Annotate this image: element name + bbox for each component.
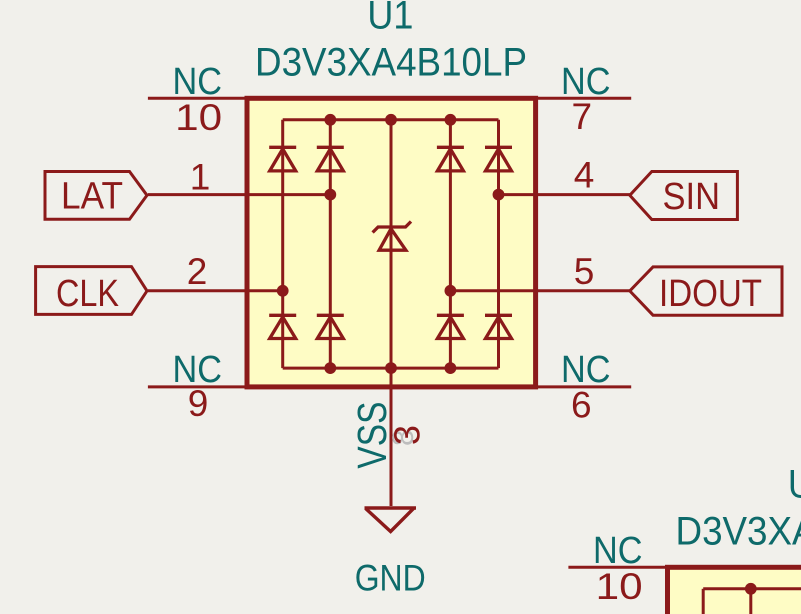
svg-text:U1: U1: [367, 0, 413, 37]
junction dot top rail col3: [445, 114, 457, 126]
svg-text:4: 4: [574, 155, 595, 196]
diode D3a (top col3): [437, 147, 464, 171]
junction dot bottom rail col3: [445, 362, 457, 374]
pin 9 (NC): [148, 385, 247, 388]
svg-text:CLK: CLK: [56, 273, 119, 315]
pin 4 (SIN) with wire to label: [499, 193, 632, 196]
pin 6 (NC): [535, 385, 632, 388]
IC U2 body: [668, 567, 801, 614]
svg-text:6: 6: [571, 384, 592, 425]
internal bottom rail wire: [283, 367, 499, 370]
U2 internal column 1 wire: [702, 589, 705, 614]
ground symbol: [365, 508, 417, 532]
junction dot bottom rail center: [385, 362, 397, 374]
internal column 2 wire: [329, 120, 332, 368]
diode D3b (bottom col3): [437, 315, 464, 338]
svg-text:7: 7: [572, 96, 593, 137]
svg-text:D3V3XA4B10LP: D3V3XA4B10LP: [676, 510, 801, 554]
U2 internal top rail wire: [703, 587, 801, 590]
internal column 3 wire: [449, 120, 452, 368]
junction dot bottom rail col2: [324, 362, 336, 374]
junction dot pin1/col2: [324, 189, 336, 201]
pin 2 (CLK) with wire to label: [148, 289, 283, 292]
diode D1b (bottom col1): [269, 315, 296, 338]
U2 junction dot top rail col2: [745, 583, 757, 595]
global label IDOUT: [630, 267, 782, 315]
svg-text:IDOUT: IDOUT: [659, 273, 762, 315]
svg-text:GND: GND: [355, 557, 426, 598]
junction dot pin5/col3: [445, 285, 457, 297]
junction dot top rail center: [385, 114, 397, 126]
pin 3 (VSS) wire down to ground: [390, 120, 393, 506]
svg-text:D3V3XA4B10LP: D3V3XA4B10LP: [255, 41, 527, 85]
svg-text:2: 2: [187, 251, 208, 292]
svg-text:1: 1: [190, 157, 211, 198]
pin 5 (IDOUT) with wire to label: [450, 289, 631, 292]
svg-text:10: 10: [596, 565, 643, 607]
U2 pin 10 (NC): [568, 566, 667, 569]
pin 10 (NC): [148, 97, 247, 100]
U2 internal column 2 wire: [749, 589, 752, 614]
svg-text:10: 10: [175, 96, 222, 138]
diode D4b (bottom col4): [485, 315, 512, 338]
junction dot pin4/col4: [493, 189, 505, 201]
diode D1a (top col1): [269, 147, 296, 171]
pin 1 (LAT) with wire to label: [148, 193, 330, 196]
internal column 4 wire: [497, 120, 500, 368]
diode D2b (bottom col2): [317, 315, 344, 338]
svg-text:SIN: SIN: [663, 176, 721, 218]
svg-text:5: 5: [574, 251, 595, 292]
global label CLK: [36, 267, 147, 316]
junction dot top rail col2: [324, 114, 336, 126]
IC U1 body: [247, 98, 536, 387]
pin 7 (NC): [535, 97, 632, 100]
internal top rail wire: [283, 118, 499, 121]
svg-text:3: 3: [387, 425, 428, 445]
svg-text:9: 9: [188, 383, 209, 424]
junction dot pin2/col1: [277, 285, 289, 297]
global label SIN: [630, 172, 738, 220]
svg-text:U1: U1: [788, 462, 801, 506]
diode D2a (top col2): [317, 147, 344, 171]
svg-text:LAT: LAT: [61, 175, 123, 217]
diode D4a (top col4): [485, 147, 512, 171]
zener diode (center): [373, 222, 411, 251]
internal column 1 wire: [281, 120, 284, 368]
global label LAT: [45, 172, 147, 220]
